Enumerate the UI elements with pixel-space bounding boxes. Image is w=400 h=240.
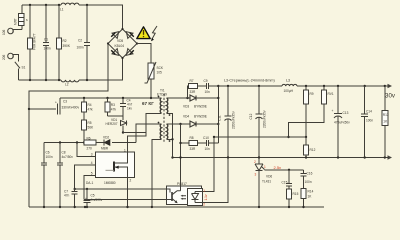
wire aux winding top to Vcc diode line [136, 124, 160, 143]
svg-text:DA-1: DA-1 [86, 181, 93, 185]
svg-text:RV1: RV1 [328, 92, 334, 96]
wire aux winding bottom to primary ground [152, 139, 160, 207]
svg-text:R2: R2 [63, 39, 67, 43]
svg-text:MBR: MBR [101, 147, 109, 151]
wire IC pin2 source to ground [127, 178, 129, 208]
svg-text:L1: L1 [60, 8, 64, 12]
svg-text:TL431: TL431 [262, 180, 271, 184]
svg-text:390K: 390K [63, 44, 71, 48]
light arrows of PC817 [182, 196, 187, 199]
diode VD2 MBR160 [101, 136, 110, 151]
svg-text:+: + [332, 109, 334, 113]
capacitor C7 [64, 188, 78, 207]
svg-text:BYW29E: BYW29E [194, 115, 207, 119]
wire connector XP2 to switch [13, 55, 18, 62]
svg-text:4: 4 [91, 161, 93, 165]
node secondary 0V rail [173, 157, 389, 159]
capacitor C6 [41, 143, 53, 208]
svg-text:VD6: VD6 [266, 174, 272, 178]
svg-text:2: 2 [254, 160, 256, 164]
svg-text:100n: 100n [366, 119, 373, 123]
phototransistor of PC817 [171, 192, 173, 201]
resistor R4 [82, 98, 94, 112]
svg-text:C10: C10 [203, 136, 209, 140]
svg-text:100n: 100n [305, 180, 312, 184]
resistor R7 snubber [188, 79, 198, 98]
svg-text:C2: C2 [78, 39, 82, 43]
svg-text:L3-Стержень(L-24mm/d-8mm): L3-Стержень(L-24mm/d-8mm) [224, 79, 275, 83]
svg-text:1: 1 [203, 189, 205, 193]
wire primary bottom to drain staircase [128, 113, 161, 152]
diode VD3 BYW29E [183, 95, 218, 109]
svg-text:SCK: SCK [157, 66, 164, 70]
capacitor C14 [361, 86, 373, 158]
resistor R6 [84, 137, 96, 151]
svg-text:3: 3 [91, 153, 93, 157]
warning triangle symbol [137, 27, 150, 39]
wire IC pin5 [84, 176, 96, 200]
svg-text:3: 3 [255, 173, 257, 177]
wire feedback line y137 [214, 136, 306, 138]
inductor L1 top winding [60, 3, 79, 11]
svg-text:R9: R9 [310, 92, 314, 96]
capacitor C16 [301, 170, 313, 189]
svg-text:106: 106 [2, 29, 6, 35]
svg-text:C6: C6 [46, 151, 50, 155]
svg-text:C16: C16 [307, 172, 313, 176]
capacitor C2 [77, 5, 91, 80]
capacitor C10 snubber [198, 136, 219, 151]
lightning bolt symbol [151, 26, 157, 41]
node DC+ rail y98 [60, 97, 160, 99]
node Vcc line [44, 142, 136, 144]
svg-text:R14: R14 [308, 190, 314, 194]
wire bridge plus to thermistor [137, 44, 151, 64]
svg-text:VD5: VD5 [117, 39, 123, 43]
svg-text:VD3: VD3 [183, 105, 189, 109]
svg-text:S1: S1 [22, 66, 26, 70]
svg-text:R7: R7 [190, 79, 194, 83]
svg-text:BYW29E: BYW29E [194, 105, 207, 109]
diode VD1 HER207 [106, 116, 127, 134]
capacitor C5 [84, 188, 103, 208]
svg-text:R12: R12 [310, 148, 316, 152]
svg-text:47n: 47n [64, 194, 70, 198]
capacitor C11 electrolytic [218, 86, 236, 158]
wire bridge minus to left ground column [29, 44, 108, 208]
wire opto collector top entry [180, 124, 182, 186]
junction dots on top rail [29, 4, 31, 6]
svg-text:100n: 100n [46, 155, 53, 159]
svg-text:56K: 56K [88, 126, 95, 130]
wire IC pin3 Vcc tap [77, 143, 96, 157]
bridge rectifier VD5 KBL04 [107, 28, 138, 59]
svg-text:МЛТ: МЛТ [14, 18, 18, 25]
svg-text:C3: C3 [63, 100, 67, 104]
svg-text:2: 2 [130, 179, 132, 183]
diode VD4 BYW29E [179, 115, 219, 128]
svg-text:47k: 47k [111, 108, 117, 112]
connector XP2 (AC pin) [2, 53, 13, 60]
svg-text:1.1v: 1.1v [204, 194, 208, 200]
svg-text:C11: C11 [218, 115, 222, 121]
thermistor SCK 105 [145, 62, 164, 98]
svg-text:10n: 10n [205, 147, 211, 151]
wire bottom AC rail [19, 58, 123, 80]
resistor R13 [382, 86, 389, 158]
junction dots on bottom rail [29, 79, 31, 81]
wire rectifier join column [217, 86, 219, 143]
svg-text:R4: R4 [88, 103, 92, 107]
wire secondary winding 2 to VD4 [170, 123, 190, 125]
svg-text:4u7/50v: 4u7/50v [62, 155, 74, 159]
resistor R9 [304, 86, 314, 138]
svg-text:2.5v: 2.5v [274, 165, 282, 170]
node TL431 ref line 2.5v [265, 169, 304, 171]
capacitor C4 [120, 98, 133, 116]
wire LED anode riser [203, 137, 215, 192]
wire IC pin4 feedback [75, 165, 96, 189]
svg-text:1kv: 1kv [127, 107, 132, 111]
LED of PC817 [194, 192, 196, 203]
IC DA1 1M0880 [86, 149, 135, 186]
svg-text:270: 270 [87, 147, 93, 151]
svg-text:1M0880: 1M0880 [104, 181, 116, 185]
resistor R12 [304, 137, 316, 158]
resistor R2 [57, 5, 71, 80]
svg-text:67 КГ: 67 КГ [142, 101, 154, 106]
wire snubber bottom [108, 115, 124, 117]
svg-text:VD4: VD4 [183, 115, 189, 119]
svg-text:10n: 10n [205, 90, 211, 94]
resistor R15 [287, 189, 299, 208]
svg-text:C1: C1 [44, 38, 48, 42]
svg-text:L2: L2 [65, 83, 69, 87]
wire secondary center tap [170, 113, 173, 157]
switch S1 [15, 62, 26, 80]
wire opto emitter line [84, 198, 167, 200]
svg-text:2: 2 [203, 203, 205, 207]
svg-text:C8: C8 [62, 151, 66, 155]
svg-text:FVR 8FA7T: FVR 8FA7T [33, 33, 37, 50]
svg-text:100n: 100n [77, 46, 84, 50]
svg-text:33R: 33R [190, 147, 197, 151]
svg-text:R15: R15 [293, 192, 299, 196]
svg-text:2200uFx35v: 2200uFx35v [263, 110, 267, 128]
svg-text:PC817: PC817 [177, 182, 187, 186]
wire top AC rail [22, 5, 123, 29]
capacitor C15 [282, 170, 293, 189]
svg-text:C12: C12 [249, 113, 253, 119]
svg-text:100n: 100n [44, 47, 51, 51]
inductor L3 [224, 79, 297, 94]
svg-text:R8: R8 [190, 136, 194, 140]
shunt regulator VD6 TL431 [254, 158, 272, 209]
svg-text:470uFx50v: 470uFx50v [334, 121, 350, 125]
connector XP1 (AC pin) [2, 28, 22, 35]
svg-text:100μH: 100μH [284, 89, 294, 93]
wire LED cathode to 0V rail riser [203, 158, 229, 203]
svg-text:+: + [55, 101, 57, 105]
svg-text:R3: R3 [111, 103, 115, 107]
svg-text:R6: R6 [87, 137, 91, 141]
svg-text:30v: 30v [385, 93, 396, 100]
svg-text:VD2: VD2 [103, 136, 109, 140]
svg-text:C15: C15 [282, 181, 288, 185]
resistor R3 [105, 98, 116, 116]
svg-text:1: 1 [124, 149, 126, 153]
transformer Tr1 ETD39 [142, 89, 170, 144]
capacitor C8 [57, 143, 73, 208]
svg-text:206: 206 [2, 54, 6, 60]
svg-text:C9: C9 [204, 79, 208, 83]
capacitor C12 electrolytic [249, 86, 267, 158]
svg-text:105: 105 [157, 71, 163, 75]
capacitor C3 [28, 98, 80, 115]
svg-text:C13: C13 [343, 111, 349, 115]
svg-text:5: 5 [91, 172, 93, 176]
inductor L1 bottom winding [61, 80, 79, 87]
svg-text:VD1: VD1 [111, 118, 117, 122]
svg-text:HER207: HER207 [106, 122, 118, 126]
resistor R14 [301, 189, 314, 209]
svg-text:2200uFx35v: 2200uFx35v [232, 111, 236, 129]
svg-text:R13: R13 [383, 113, 389, 117]
capacitor C13 [332, 86, 351, 158]
svg-text:47k: 47k [88, 108, 94, 112]
svg-text:L3: L3 [286, 79, 290, 83]
svg-text:C14: C14 [366, 110, 372, 114]
svg-text:33R: 33R [190, 90, 197, 94]
capacitor C1 [43, 5, 51, 80]
wire secondary winding 1 to VD3 [170, 97, 190, 99]
node output +30v rail [218, 85, 388, 87]
varistor RU1 [28, 5, 37, 80]
capacitor C9 snubber [198, 79, 219, 94]
svg-text:R5: R5 [88, 121, 92, 125]
resistor R11 [287, 86, 334, 138]
ground rail primary [29, 206, 324, 208]
optocoupler PC817 [167, 124, 208, 207]
svg-text:KBL04: KBL04 [115, 44, 125, 48]
svg-text:330nFx400v: 330nFx400v [62, 106, 80, 110]
wire opto collector line [75, 188, 167, 190]
resistor R5 [82, 112, 95, 143]
wire clamp to drain net [123, 132, 146, 134]
resistor R8 snubber [181, 136, 198, 151]
resistor R1 MLT fusible [14, 5, 29, 30]
svg-text:1: 1 [264, 165, 266, 169]
